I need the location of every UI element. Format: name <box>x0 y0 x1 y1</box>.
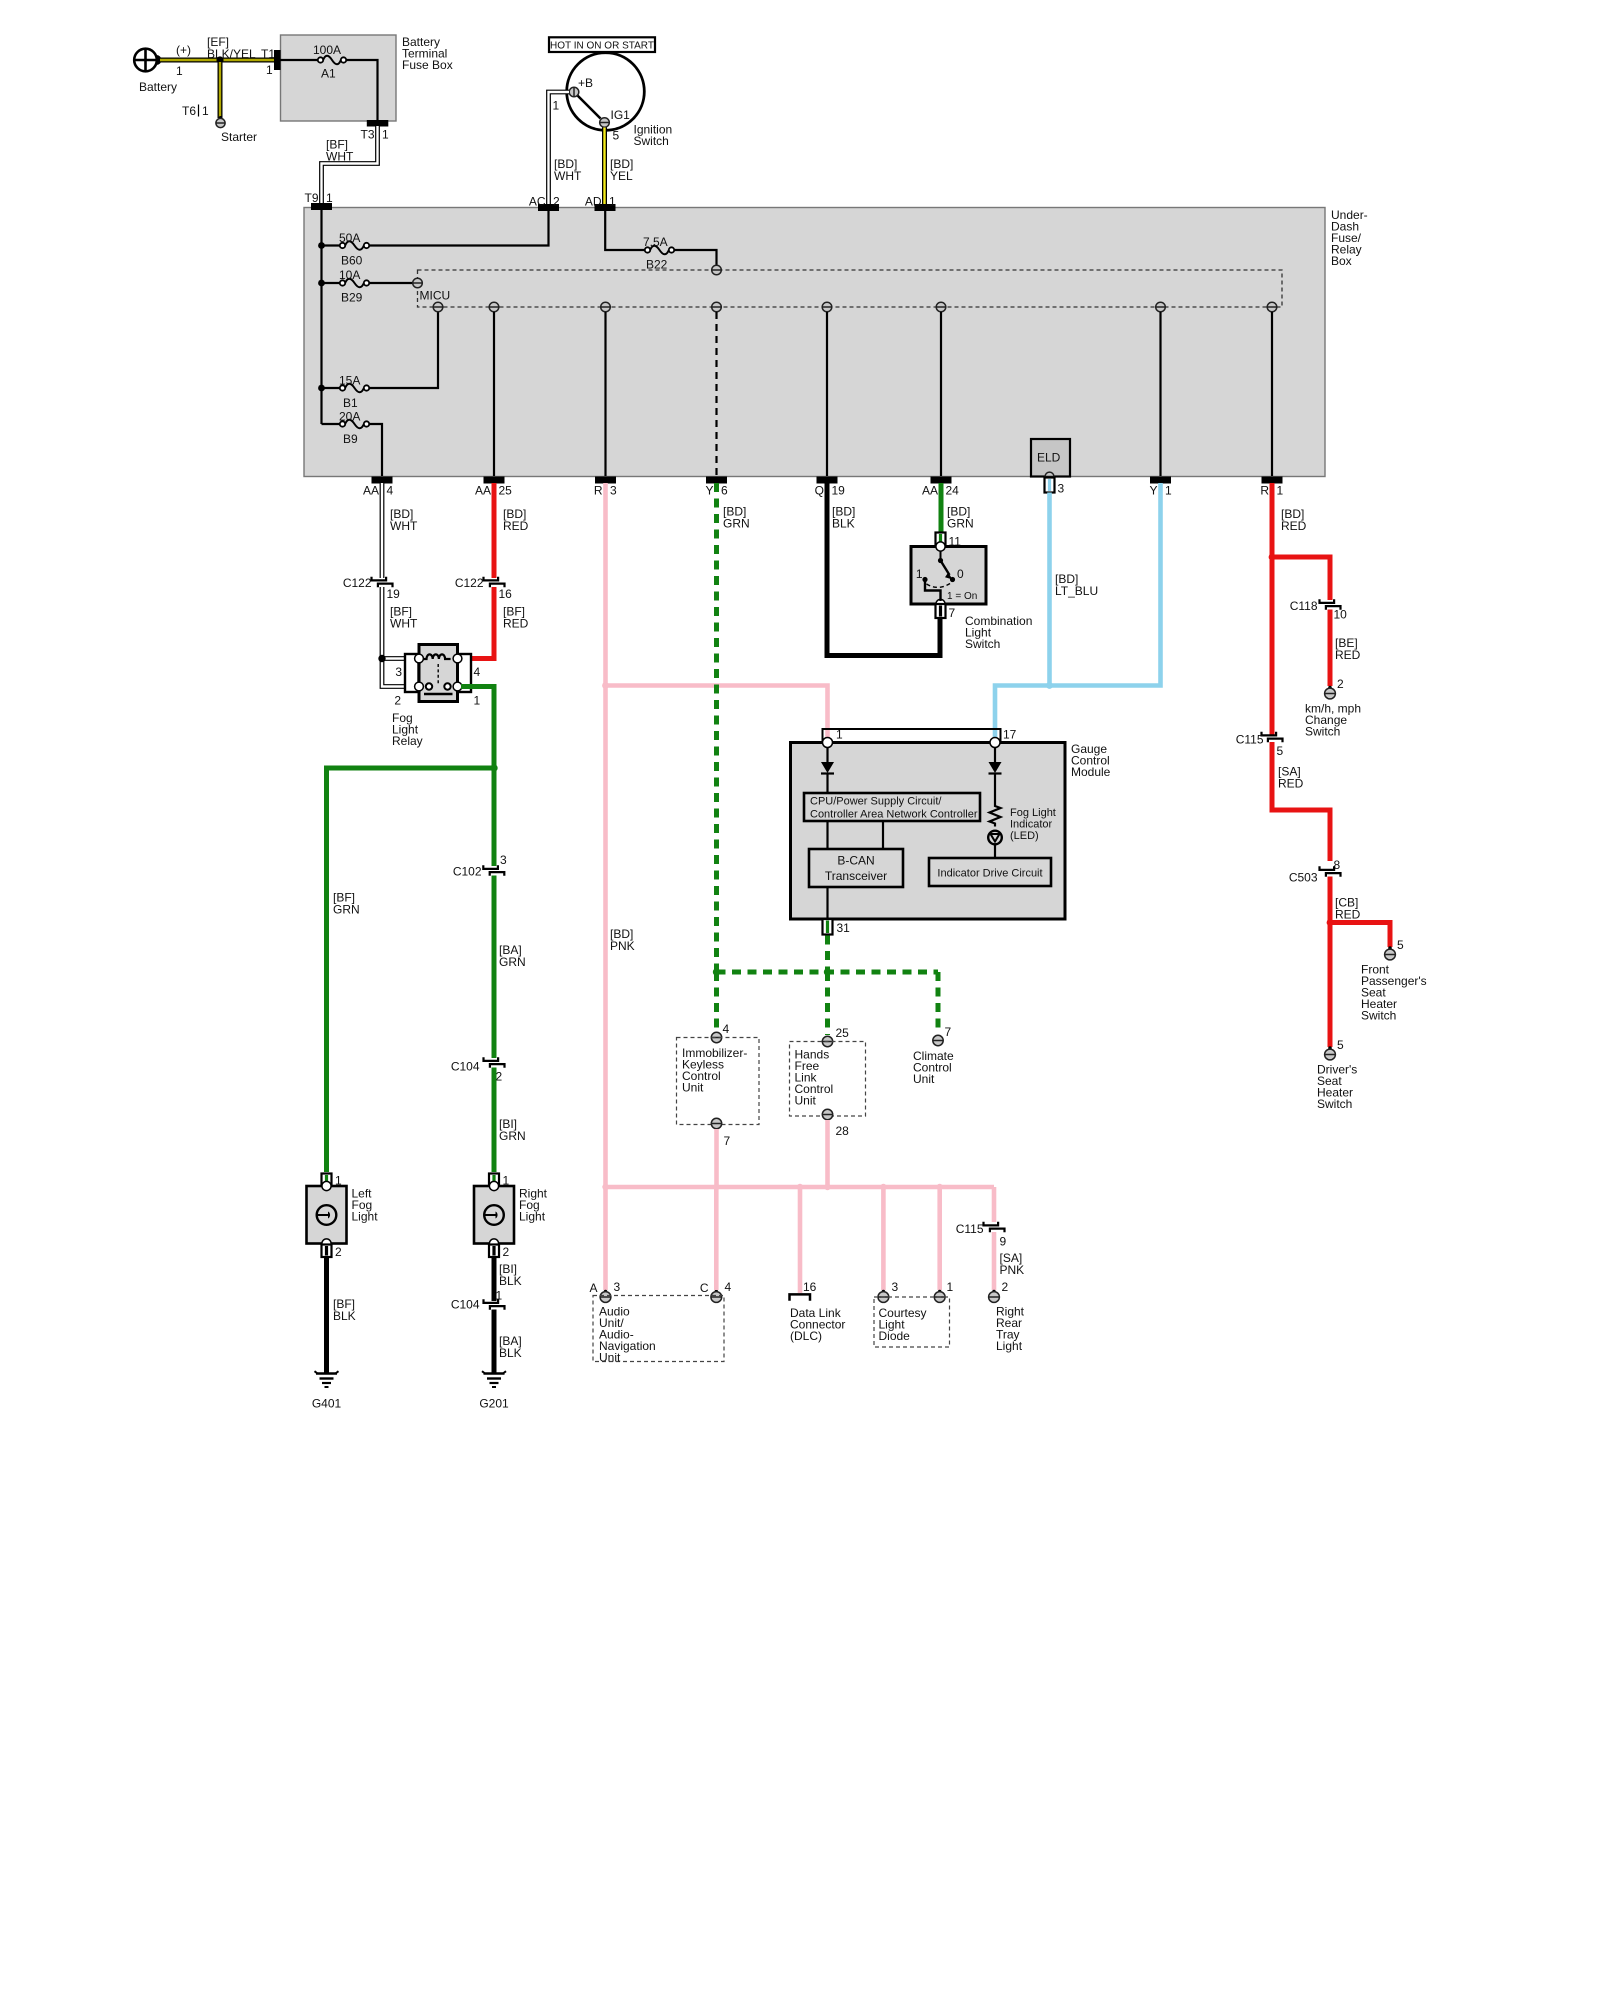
wire to front passenger seat heater switch <box>1330 923 1390 948</box>
junction lt blue <box>1046 682 1053 689</box>
wire pink to courtesy diode pin3 <box>881 1187 886 1290</box>
svg-text:7: 7 <box>949 606 956 620</box>
svg-text:Switch: Switch <box>1317 1097 1352 1111</box>
svg-text:B29: B29 <box>341 291 363 305</box>
svg-text:Box: Box <box>1331 254 1352 268</box>
svg-text:RED: RED <box>1281 519 1307 533</box>
fuse 10A B29 <box>322 282 341 284</box>
svg-text:Y: Y <box>1149 484 1157 498</box>
wire 20A to AA4 <box>369 424 382 476</box>
wire R1 red [BD] RED <box>1270 483 1275 735</box>
wire relay pin1 green <box>461 687 494 767</box>
driver's seat heater switch terminal 5 <box>1328 1046 1332 1050</box>
connector C118 pin10 <box>1320 599 1335 603</box>
wire to hands free pin25 <box>825 972 830 1035</box>
svg-text:+B: +B <box>578 76 593 90</box>
svg-text:1: 1 <box>1165 484 1172 498</box>
svg-text:A: A <box>589 1281 597 1295</box>
svg-text:(DLC): (DLC) <box>790 1329 822 1343</box>
svg-text:3: 3 <box>892 1280 899 1294</box>
svg-text:Switch: Switch <box>634 134 669 148</box>
wire MICU to AA24 <box>940 312 942 476</box>
connector T9 <box>312 204 332 210</box>
svg-text:RED: RED <box>503 617 529 631</box>
svg-text:A1: A1 <box>321 67 336 81</box>
junction green <box>490 764 497 771</box>
svg-text:2: 2 <box>1002 1280 1009 1294</box>
wire pink into pin1 <box>825 730 830 740</box>
wire red to C118 <box>1272 557 1330 600</box>
ground G401 <box>324 1369 329 1373</box>
svg-text:1: 1 <box>1277 484 1284 498</box>
svg-text:CPU/Power Supply Circuit/: CPU/Power Supply Circuit/ <box>810 796 942 808</box>
connector AA25 <box>484 477 504 483</box>
svg-text:LT_BLU: LT_BLU <box>1055 584 1098 598</box>
svg-text:ELD: ELD <box>1037 451 1061 465</box>
svg-text:50A: 50A <box>339 231 360 245</box>
wire C115 to C503 [SA] RED <box>1272 742 1330 861</box>
svg-text:28: 28 <box>836 1124 850 1138</box>
svg-text:Unit: Unit <box>795 1094 817 1108</box>
svg-text:RED: RED <box>503 519 529 533</box>
svg-text:1: 1 <box>609 195 616 209</box>
svg-text:Switch: Switch <box>965 637 1000 651</box>
wire pink to audio C4 <box>714 1187 719 1290</box>
svg-text:10A: 10A <box>339 268 360 282</box>
svg-text:19: 19 <box>387 587 401 601</box>
fuse 15A B1 <box>322 387 341 389</box>
svg-text:B1: B1 <box>343 396 358 410</box>
svg-text:31: 31 <box>837 921 851 935</box>
wire MICU to Y1 <box>1159 312 1161 476</box>
fuse 50A B60 <box>322 244 341 246</box>
wire T1 to fuse 100A <box>280 59 318 61</box>
junction white wire <box>378 655 385 662</box>
svg-text:Diode: Diode <box>879 1329 911 1343</box>
left fog light pin1 <box>322 1174 332 1187</box>
svg-text:Indicator Drive Circuit: Indicator Drive Circuit <box>937 868 1042 880</box>
connector AA4 <box>372 477 392 483</box>
svg-text:4: 4 <box>725 1280 732 1294</box>
svg-text:AC: AC <box>529 195 546 209</box>
wire C115 to tray light [SA] PNK <box>992 1232 997 1290</box>
svg-text:15A: 15A <box>339 374 360 388</box>
CPU/power supply box <box>804 793 980 821</box>
connector Y1 <box>1151 477 1171 483</box>
wire 15A to MICU <box>369 312 438 388</box>
ground G201 <box>492 1369 497 1373</box>
svg-text:1: 1 <box>947 1280 954 1294</box>
svg-text:C104: C104 <box>451 1060 480 1074</box>
svg-text:1 = On: 1 = On <box>947 591 977 602</box>
svg-text:3: 3 <box>610 484 617 498</box>
svg-text:7: 7 <box>945 1025 952 1039</box>
connector Y6 <box>707 477 727 483</box>
combination light switch pin11 <box>936 533 946 547</box>
wire Y6 green dashed [BD] GRN <box>714 483 719 972</box>
right fog light pin1 <box>489 1174 499 1187</box>
wire AA24 green [BD] GRN <box>939 483 944 533</box>
wire pink to courtesy diode pin1 <box>937 1187 942 1290</box>
svg-text:2: 2 <box>1337 677 1344 691</box>
svg-text:B9: B9 <box>343 432 358 446</box>
connector R1 <box>1262 477 1282 483</box>
wire MICU to AA25 <box>493 312 495 476</box>
gauge module pin31 <box>823 919 833 935</box>
svg-text:9: 9 <box>1000 1235 1007 1249</box>
svg-text:1: 1 <box>266 63 273 77</box>
climate control unit <box>933 1035 943 1045</box>
svg-text:1: 1 <box>202 104 209 118</box>
svg-text:Battery: Battery <box>139 80 177 94</box>
wire MICU to Y6 (dashed) <box>715 312 717 476</box>
wire immobilizer pin7 pink <box>714 1129 719 1187</box>
junction battery/starter <box>216 56 223 63</box>
svg-text:2: 2 <box>394 694 401 708</box>
svg-text:2: 2 <box>496 1070 503 1084</box>
fog light relay <box>405 654 419 692</box>
svg-text:1: 1 <box>382 128 389 142</box>
svg-text:YEL: YEL <box>610 169 633 183</box>
wire C104 to ground G201 [BA] BLK <box>492 1310 497 1372</box>
svg-text:T1: T1 <box>261 47 275 61</box>
wire R3 pink [BD] PNK <box>603 483 608 1290</box>
connector C115 pin5 <box>1262 732 1277 736</box>
wire Y1 lt blue <box>995 483 1161 737</box>
wire lt blue into pin17 <box>993 730 998 740</box>
svg-text:7.5A: 7.5A <box>643 235 668 249</box>
junction red C118 branch <box>1269 554 1276 561</box>
svg-text:Switch: Switch <box>1305 725 1340 739</box>
wire C104 to right fog light [BI] GRN <box>492 1068 497 1173</box>
starter terminal <box>219 116 223 120</box>
svg-text:C122: C122 <box>343 576 372 590</box>
wire 10A to MICU <box>369 282 413 284</box>
wire 7.5A to MICU top <box>674 250 717 266</box>
svg-text:C: C <box>700 1281 709 1295</box>
data link connector DLC pin16 <box>790 1294 811 1300</box>
svg-text:AA: AA <box>922 484 938 498</box>
B-CAN transceiver box <box>809 849 903 887</box>
gauge control module <box>823 729 1001 743</box>
connector C115 pin9 <box>984 1222 999 1226</box>
svg-text:C115: C115 <box>1236 733 1264 747</box>
wire to immobilizer pin4 <box>714 972 719 1031</box>
svg-text:19: 19 <box>832 484 846 498</box>
gauge internal diode 1 <box>826 747 828 762</box>
svg-text:PNK: PNK <box>1000 1263 1025 1277</box>
wire C503 down [CB] RED <box>1328 877 1333 1048</box>
svg-text:G401: G401 <box>312 1397 342 1411</box>
svg-text:2: 2 <box>335 1245 342 1259</box>
svg-text:GRN: GRN <box>723 517 750 531</box>
terminal +B <box>569 87 579 97</box>
svg-text:C102: C102 <box>453 865 482 879</box>
terminal IG1 <box>600 118 610 128</box>
svg-text:Fuse Box: Fuse Box <box>402 58 453 72</box>
svg-text:5: 5 <box>1277 744 1284 758</box>
connector R3 <box>596 477 616 483</box>
MICU terminal left (10A) <box>413 278 423 288</box>
HOT IN ON OR START banner <box>549 37 655 52</box>
svg-text:5: 5 <box>1397 938 1404 952</box>
audio unit box <box>593 1296 724 1362</box>
wire +B to AC [BD] WHT <box>549 92 570 206</box>
svg-text:100A: 100A <box>313 43 341 57</box>
ignition switch arm <box>578 96 601 119</box>
svg-text:Transceiver: Transceiver <box>825 869 887 883</box>
wire T9 bus inside box <box>320 209 322 424</box>
svg-text:B60: B60 <box>341 254 363 268</box>
MICU terminal top (7.5A) <box>712 265 722 275</box>
fuse 20A B9 <box>322 423 341 425</box>
wire fuse to T3 <box>346 60 378 120</box>
svg-text:10: 10 <box>1334 608 1348 622</box>
svg-text:25: 25 <box>499 484 513 498</box>
svg-text:WHT: WHT <box>554 169 582 183</box>
connector C104 pin2 <box>484 1057 499 1061</box>
svg-text:7: 7 <box>724 1134 731 1148</box>
svg-text:Unit: Unit <box>682 1081 704 1095</box>
audio unit terminal A3 <box>604 1290 608 1294</box>
svg-text:4: 4 <box>723 1022 730 1036</box>
hands free link control unit <box>822 1036 832 1046</box>
svg-text:24: 24 <box>946 484 960 498</box>
wire left fog to ground [BF] BLK <box>324 1257 329 1371</box>
wire ELD pin3 lt blue [BD] LT_BLU <box>1047 493 1052 686</box>
wire pink to gauge pin1 <box>606 686 828 738</box>
svg-text:BLK/YEL: BLK/YEL <box>207 47 256 61</box>
svg-text:Light: Light <box>519 1210 546 1224</box>
wire hands free pin28 pink <box>825 1120 830 1187</box>
wire C102 to C104 [BA] GRN <box>492 876 497 1059</box>
wire T3 to T9 [BF] WHT <box>322 126 378 205</box>
wires CPU to B-CAN <box>826 821 828 849</box>
wire AA4 to C122 [BD] WHT <box>380 483 385 578</box>
svg-text:Starter: Starter <box>221 130 257 144</box>
immobilizer-keyless control unit <box>711 1032 721 1042</box>
svg-text:RED: RED <box>1335 908 1361 922</box>
svg-text:(+): (+) <box>176 43 191 57</box>
connector T3 <box>367 121 388 127</box>
svg-text:2: 2 <box>553 195 560 209</box>
connector C122 pin16 <box>484 577 499 581</box>
svg-text:R: R <box>594 484 603 498</box>
svg-text:T9: T9 <box>304 191 318 205</box>
svg-text:BLK: BLK <box>832 517 855 531</box>
wire to climate pin7 <box>936 972 941 1034</box>
connector AC <box>539 205 559 211</box>
wire Q19 to switch [BD] BLK <box>827 483 940 656</box>
ignition switch <box>567 53 645 131</box>
svg-text:BLK: BLK <box>499 1274 522 1288</box>
indicator drive circuit box <box>929 858 1051 886</box>
svg-text:GRN: GRN <box>499 1129 526 1143</box>
svg-text:Y: Y <box>705 484 713 498</box>
svg-text:WHT: WHT <box>390 519 418 533</box>
wire green down to C102 <box>492 768 497 866</box>
left fog light pin2 <box>322 1245 332 1258</box>
svg-text:1: 1 <box>553 99 560 113</box>
svg-text:Light: Light <box>352 1210 379 1224</box>
svg-text:Indicator: Indicator <box>1010 819 1053 831</box>
right fog light <box>474 1186 514 1244</box>
svg-text:Relay: Relay <box>392 734 423 748</box>
fuse 100A A1 <box>318 57 323 62</box>
battery <box>134 49 157 72</box>
connector AD <box>595 205 615 211</box>
junction pink to gauge <box>602 682 609 689</box>
audio unit terminal C4 <box>715 1290 719 1294</box>
svg-text:C115: C115 <box>956 1222 984 1236</box>
svg-text:3: 3 <box>1058 482 1065 496</box>
svg-text:2: 2 <box>503 1245 510 1259</box>
left fog light <box>307 1186 347 1244</box>
wire IG1 to AD [BD] YEL <box>602 128 607 207</box>
junction red seat heaters <box>1327 919 1334 926</box>
svg-text:16: 16 <box>803 1280 817 1294</box>
svg-text:(LED): (LED) <box>1010 830 1039 842</box>
svg-text:6: 6 <box>721 484 728 498</box>
svg-text:3: 3 <box>395 665 402 679</box>
svg-text:B22: B22 <box>646 258 668 272</box>
svg-text:Module: Module <box>1071 765 1111 779</box>
ELD unit <box>1031 439 1070 477</box>
svg-text:GRN: GRN <box>947 517 974 531</box>
svg-text:R: R <box>1260 484 1269 498</box>
under-dash fuse/relay box <box>304 208 1325 477</box>
wire MICU to R1 <box>1271 312 1273 476</box>
wire MICU to R3 <box>604 312 606 476</box>
wire C118 to km/h switch [BE] RED <box>1328 610 1333 687</box>
connector Q19 <box>817 477 837 483</box>
svg-text:B-CAN: B-CAN <box>837 854 874 868</box>
svg-text:BLK: BLK <box>333 1309 356 1323</box>
svg-text:GRN: GRN <box>499 955 526 969</box>
MICU box (dashed) <box>418 270 1283 307</box>
svg-text:25: 25 <box>836 1026 850 1040</box>
svg-text:17: 17 <box>1003 728 1017 742</box>
wire right fog to C104 [BI] BLK <box>492 1257 497 1301</box>
svg-text:RED: RED <box>1335 648 1361 662</box>
svg-text:T3: T3 <box>360 128 374 142</box>
wire C122 to relay pin4 [BF] RED <box>461 587 494 659</box>
connector AA24 <box>931 477 951 483</box>
svg-text:5: 5 <box>613 129 620 143</box>
svg-text:Unit: Unit <box>913 1072 935 1086</box>
pink bus <box>606 1185 995 1190</box>
right rear tray light terminal 2 <box>992 1290 996 1294</box>
svg-text:1: 1 <box>836 728 843 742</box>
svg-text:BLK: BLK <box>499 1346 522 1360</box>
svg-text:IG1: IG1 <box>611 108 631 122</box>
svg-text:HOT IN ON OR START: HOT IN ON OR START <box>550 40 654 51</box>
svg-text:3: 3 <box>500 853 507 867</box>
pink bus junctions <box>602 1184 608 1190</box>
connector C122 pin19 <box>372 577 387 581</box>
svg-text:Unit: Unit <box>599 1351 621 1365</box>
svg-text:WHT: WHT <box>326 150 354 164</box>
svg-text:AD: AD <box>585 195 602 209</box>
svg-text:C122: C122 <box>455 576 484 590</box>
connector ELD pin 3 <box>1045 478 1055 493</box>
svg-text:16: 16 <box>499 587 513 601</box>
wire MICU to Q19 <box>826 312 828 476</box>
wire green branch to left fog light [BF] GRN <box>327 768 495 1172</box>
fuse 7.5A B22 <box>605 209 645 250</box>
svg-text:Switch: Switch <box>1361 1009 1396 1023</box>
combination light switch <box>911 547 986 605</box>
wire junction to starter T6 <box>218 62 223 118</box>
svg-text:WHT: WHT <box>390 617 418 631</box>
MICU output terminals <box>433 302 443 312</box>
wire 50A to AC <box>369 209 549 246</box>
wire pin31 green dashed <box>825 936 830 973</box>
svg-text:C104: C104 <box>451 1298 480 1312</box>
combination light switch pin7 <box>936 604 946 618</box>
gauge internal diode 2 <box>994 747 996 762</box>
fog light indicator LED <box>988 831 1002 845</box>
wire battery to T1 [EF] BLK/YEL <box>160 58 277 63</box>
svg-text:T6: T6 <box>182 104 196 118</box>
wire AA25 to C122 [BD] RED <box>492 483 497 578</box>
svg-text:4: 4 <box>474 665 481 679</box>
courtesy light diode <box>882 1290 886 1294</box>
svg-text:5: 5 <box>1337 1038 1344 1052</box>
fog light indicator resistor <box>990 800 1001 827</box>
km/h mph change switch terminal 2 <box>1328 686 1332 690</box>
svg-text:Controller Area Network Contro: Controller Area Network Controller <box>810 809 978 821</box>
svg-text:1: 1 <box>176 64 183 78</box>
svg-text:G201: G201 <box>479 1397 509 1411</box>
svg-text:AA: AA <box>475 484 491 498</box>
svg-text:4: 4 <box>387 484 394 498</box>
svg-text:Fog Light: Fog Light <box>1010 807 1056 819</box>
svg-text:AA: AA <box>363 484 379 498</box>
svg-text:Q: Q <box>815 484 824 498</box>
svg-text:1: 1 <box>474 694 481 708</box>
svg-text:RED: RED <box>1278 777 1304 791</box>
wire pink to DLC <box>798 1187 803 1293</box>
svg-text:C118: C118 <box>1290 599 1318 613</box>
svg-text:1: 1 <box>916 567 923 581</box>
svg-text:3: 3 <box>614 1280 621 1294</box>
svg-text:Light: Light <box>996 1339 1023 1353</box>
green dashed bus <box>717 970 939 975</box>
svg-text:PNK: PNK <box>610 939 635 953</box>
svg-text:20A: 20A <box>339 410 360 424</box>
right fog light pin2 <box>489 1245 499 1258</box>
svg-text:GRN: GRN <box>333 903 360 917</box>
svg-text:1: 1 <box>326 191 333 205</box>
svg-text:MICU: MICU <box>420 289 451 303</box>
svg-text:0: 0 <box>957 567 964 581</box>
svg-text:C503: C503 <box>1289 871 1318 885</box>
wire C122 to relay [BF] WHT <box>380 587 385 659</box>
battery terminal fuse box <box>281 35 397 121</box>
